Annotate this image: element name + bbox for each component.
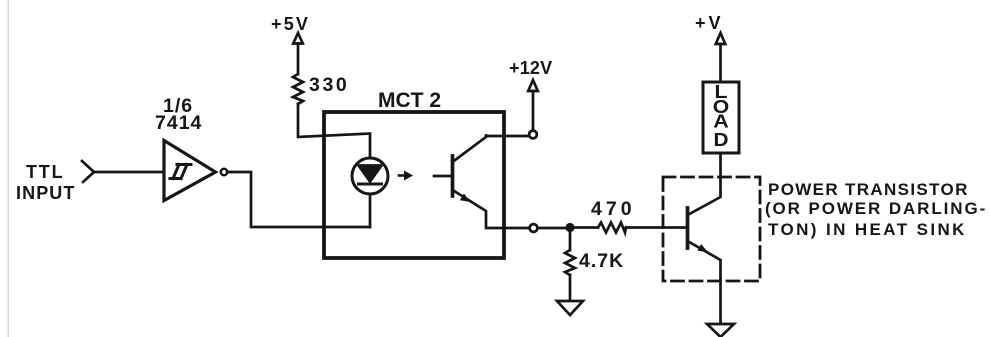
svg-text:A: A — [713, 112, 729, 132]
wire +5V to resistor R330 — [297, 44, 300, 75]
light arrow — [399, 174, 405, 177]
svg-text:(OR POWER DARLING-: (OR POWER DARLING- — [765, 199, 987, 218]
inverter output bubble — [221, 169, 227, 175]
wire input to inverter — [94, 171, 164, 174]
phototransistor Q1 emitter — [453, 190, 530, 228]
power transistor Q2 dashed heat-sink box — [663, 177, 760, 281]
svg-text:INPUT: INPUT — [16, 183, 76, 203]
phototransistor Q1 collector — [453, 136, 529, 163]
power transistor Q2 collector — [688, 154, 721, 215]
wire inverter output down and right to LED cathode — [227, 172, 370, 227]
svg-text:470: 470 — [591, 198, 636, 220]
power transistor Q2 emitter — [688, 241, 721, 323]
junction dot node B — [565, 223, 574, 232]
svg-text:7414: 7414 — [155, 112, 202, 134]
scan artifact left edge line — [8, 0, 10, 337]
svg-text:4.7K: 4.7K — [579, 250, 624, 272]
LED D1 circle — [352, 158, 388, 194]
emitter arrow Q2 — [697, 244, 708, 252]
emitter arrow Q1 — [460, 194, 471, 203]
svg-text:POWER TRANSISTOR: POWER TRANSISTOR — [768, 180, 969, 199]
resistor R 330 — [293, 74, 303, 104]
LED D1 cathode bar — [359, 183, 382, 186]
wire LED cathode down — [369, 194, 372, 227]
wire +12V down to collector node — [532, 91, 535, 130]
svg-text:+12V: +12V — [509, 58, 552, 78]
phototransistor Q1 base lead — [434, 175, 453, 178]
resistor R 4.7K — [565, 250, 575, 275]
power transistor Q2 base bar — [686, 208, 690, 248]
terminal node collector (open circle) — [529, 131, 537, 139]
ground symbol 2 — [707, 324, 734, 337]
ground symbol 1 — [557, 301, 583, 315]
wire 4.7K to ground — [569, 275, 572, 301]
wire junction down to resistor 4.7K — [569, 228, 572, 251]
wire resistor 470 to power transistor base — [626, 226, 688, 229]
wire resistor to LED anode — [298, 104, 370, 158]
wire +V to load — [719, 44, 722, 82]
node TTL INPUT terminal — [82, 161, 94, 182]
LED D1 triangle — [359, 166, 382, 182]
+5V power arrow — [293, 33, 303, 44]
svg-text:TTL: TTL — [26, 162, 64, 182]
svg-text:D: D — [714, 130, 729, 150]
schmitt hysteresis symbol — [170, 165, 191, 179]
load box — [703, 82, 739, 153]
svg-text:MCT 2: MCT 2 — [378, 89, 441, 112]
svg-text:330: 330 — [309, 74, 349, 96]
+12V power arrow — [528, 80, 538, 91]
+V power arrow — [716, 33, 726, 44]
wire junction to resistor 470 — [570, 226, 598, 229]
resistor R 470 — [598, 223, 626, 233]
svg-text:+V: +V — [695, 13, 724, 33]
phototransistor Q1 base bar — [451, 156, 455, 196]
terminal node emitter (open circle) — [530, 224, 538, 232]
svg-text:+5V: +5V — [271, 14, 310, 34]
wire emitter node to junction — [538, 227, 566, 230]
inverter U1 1/6 7414 (schmitt) — [164, 141, 216, 201]
optocoupler U2 MCT2 box — [324, 112, 504, 258]
svg-text:TON) IN HEAT SINK: TON) IN HEAT SINK — [768, 220, 967, 239]
